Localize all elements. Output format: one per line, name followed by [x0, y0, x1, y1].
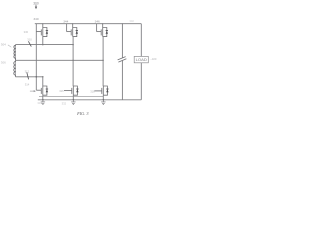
wire: Q6 source drop: [102, 95, 104, 100]
junction dot phase C / leg 1: [42, 76, 44, 78]
svg-text:LOAD: LOAD: [136, 58, 148, 62]
wire: phase B (centre tap): [16, 59, 104, 61]
svg-text:332: 332: [62, 102, 67, 106]
wire: phase C (bottom winding tap): [16, 76, 43, 78]
transistor Q1 (high side, leg 1) with body diode: [36, 24, 48, 37]
svg-text:344: 344: [63, 19, 68, 23]
bottom rail (return bus): [38, 99, 142, 101]
transistor Q4 (low side, leg 1) with body diode: [36, 86, 48, 95]
wire: Q5 source drop: [72, 95, 74, 100]
junction dot phase A end / leg 2: [72, 44, 74, 46]
DC link capacitor C1 leg: [121, 24, 123, 58]
wire: gate stub Q3 from rail: [96, 24, 98, 32]
transistor Q6 (low side, leg 3) with body diode: [94, 86, 108, 95]
wire: phase C down to Q4 drain: [42, 77, 44, 86]
junction dot leg1/bottom rail: [42, 99, 44, 101]
svg-text:FIG. 3: FIG. 3: [76, 111, 88, 116]
junction dot leg2/bottom rail: [73, 99, 75, 101]
junction dot phase B / leg 2: [72, 60, 74, 62]
svg-text:–320: –320: [150, 57, 156, 61]
load branch wire (right): [140, 24, 142, 57]
svg-text:304: 304: [1, 43, 6, 47]
inductor winding L1: [14, 45, 16, 61]
inductor winding L2: [14, 60, 16, 77]
top rail (positive DC bus): [35, 23, 142, 25]
junction dot winding centre tap: [15, 60, 16, 61]
wire: low-side source bus: [39, 95, 103, 97]
svg-text:316: 316: [59, 89, 64, 93]
svg-text:310: 310: [27, 38, 32, 42]
wire: phase A (top winding tap): [16, 44, 74, 46]
svg-text:330: 330: [24, 30, 29, 34]
wire: leg 3 vertical (Q3 source down to Q6 drain): [102, 37, 104, 86]
ground symbol 3: [101, 100, 105, 105]
ground symbol 2: [71, 100, 75, 105]
wire: leg 2 vertical (Q2 source down to Q5 drain): [72, 37, 74, 86]
svg-text:314: 314: [25, 82, 30, 86]
capacitor C1 plates: [118, 57, 126, 60]
wire: gate stub Q2 from rail: [66, 24, 68, 32]
load box: [134, 56, 148, 62]
gate bus wire (vertical, left): [35, 24, 37, 91]
transistor Q5 (low side, leg 2) with body diode: [64, 86, 79, 95]
junction dot leg3/bottom rail: [103, 99, 105, 101]
junction dot phase B end / leg 3: [102, 60, 104, 62]
svg-text:340: 340: [33, 17, 38, 21]
wire: Q4 source drop: [42, 95, 44, 100]
junction dot phase C / gate bus: [36, 76, 38, 78]
junction dots on top rail: [42, 23, 123, 24]
svg-text:346: 346: [95, 20, 100, 24]
wire: Q1 source to phase node A: [42, 37, 44, 45]
svg-text:302: 302: [129, 19, 134, 23]
lead line to L1: [8, 45, 11, 47]
svg-text:306: 306: [1, 60, 6, 64]
transistor Q2 (high side, leg 2) with body diode: [67, 24, 78, 37]
ground symbol 1: [41, 100, 45, 105]
figure reference numeral 30 with down arrow: [33, 2, 39, 10]
junction dot phase A / leg 1: [42, 44, 44, 46]
transistor Q3 (high side, leg 3) with body diode: [97, 24, 108, 37]
